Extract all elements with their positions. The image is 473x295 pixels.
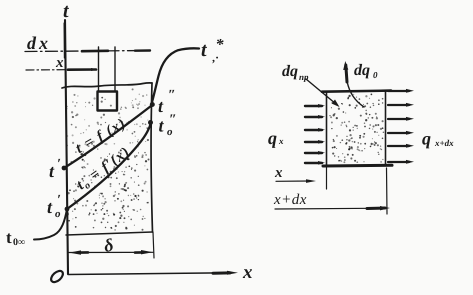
dq_0 arrow (curved, out through top) [347,82,364,107]
svg-text:q: q [268,128,277,148]
svg-text:x+dx: x+dx [273,192,307,208]
svg-text:t: t [47,197,53,217]
delta left arrowhead [69,250,81,254]
svg-text:t: t [49,161,55,181]
svg-text:o: o [55,208,61,220]
stipple dots (wall region) [66,88,149,230]
curve t=f(x) [64,106,151,168]
node t0'' [148,120,153,125]
small control square dV [98,92,118,111]
svg-text:t: t [159,116,165,136]
svg-text:′: ′ [57,193,61,208]
node t0' [65,207,70,212]
svg-text:″: ″ [169,113,177,128]
svg-text:t: t [201,39,208,61]
wall right edge [151,83,152,232]
svg-text:x+dx: x+dx [434,138,454,148]
svg-text:0∞: 0∞ [13,237,25,248]
svg-text:,·: ,· [212,51,219,65]
element square bottom edge [323,164,392,168]
q_x arrows (left, into element) [305,104,325,165]
element square right edge [385,91,387,166]
x dimension line [276,180,310,182]
dx strip right boundary [114,47,116,91]
element square left edge [326,92,328,166]
right extension line for delta [153,232,154,258]
x dash line with arrow [26,69,66,71]
svg-text:′: ′ [57,157,61,172]
svg-text:x: x [55,55,64,71]
element square top edge [322,91,391,92]
svg-text:″: ″ [168,88,176,103]
svg-text:dq: dq [282,63,298,80]
x axis arrowhead [227,271,238,275]
x axis [68,273,232,275]
left extension line below element [326,167,328,189]
curve label t0=f'(x) [74,144,135,195]
node t' [62,166,67,171]
stipple dots (element) [329,94,384,164]
q_x+dx arrows (right, out of element) [388,89,414,164]
delta right arrowhead [141,250,153,254]
t0-infinity tail curve [34,209,67,240]
svg-text:dx: dx [27,33,51,53]
right extension line below element [386,168,389,214]
svg-text:0: 0 [373,70,378,80]
dx dash-dot line [25,51,150,52]
dq_pr leader arrow [306,79,336,104]
t axis [65,20,68,274]
svg-text:t: t [158,96,164,116]
svg-text:dq: dq [354,62,370,79]
x+dx dimension line [275,207,370,210]
svg-text:o: o [167,126,173,138]
node t'' [150,102,155,107]
svg-text:x: x [278,136,284,146]
wall top edge (wavy) [62,83,152,88]
curve t0=f'(x) [67,124,151,209]
delta dimension line [69,251,153,253]
steep curve to t* [151,48,199,106]
svg-text:t: t [63,0,70,22]
origin O [49,269,65,284]
svg-text:t: t [6,228,12,247]
svg-text:x: x [274,165,283,181]
dx strip left boundary [98,47,100,91]
svg-text:x: x [242,262,253,283]
wall bottom edge [66,232,153,235]
svg-text:q: q [422,129,431,149]
